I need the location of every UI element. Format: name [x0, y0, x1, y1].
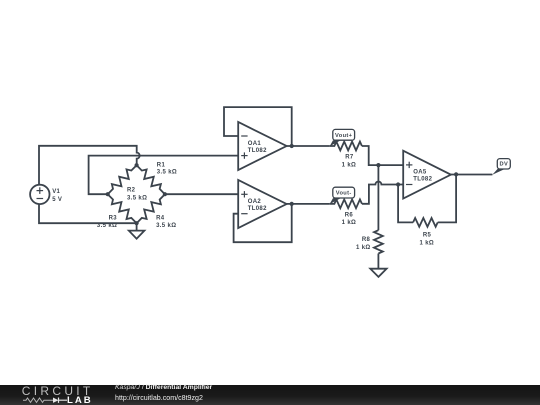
svg-text:R7: R7: [345, 155, 354, 161]
svg-text:R8: R8: [362, 237, 371, 243]
svg-text:R6: R6: [345, 212, 354, 218]
svg-text:TL082: TL082: [248, 206, 267, 212]
svg-text:3.5 kΩ: 3.5 kΩ: [156, 223, 176, 229]
svg-text:TL082: TL082: [248, 148, 267, 154]
svg-text:R5: R5: [423, 233, 432, 239]
svg-text:TL082: TL082: [413, 177, 432, 183]
svg-text:DV: DV: [499, 162, 508, 168]
svg-text:3.5 kΩ: 3.5 kΩ: [97, 223, 117, 229]
svg-text:OA2: OA2: [248, 199, 262, 205]
svg-text:3.5 kΩ: 3.5 kΩ: [127, 195, 147, 201]
svg-text:OA5: OA5: [413, 170, 427, 176]
svg-text:1 kΩ: 1 kΩ: [420, 240, 435, 246]
svg-text:V1: V1: [52, 189, 60, 195]
svg-text:1 kΩ: 1 kΩ: [356, 245, 371, 251]
svg-text:R3: R3: [109, 215, 118, 221]
svg-text:Vout-: Vout-: [336, 191, 352, 197]
svg-text:R2: R2: [127, 188, 136, 194]
svg-text:R1: R1: [157, 163, 166, 169]
svg-text:1 kΩ: 1 kΩ: [342, 162, 357, 168]
svg-text:Vout+: Vout+: [335, 133, 353, 139]
svg-text:1 kΩ: 1 kΩ: [342, 220, 357, 226]
svg-text:5 V: 5 V: [52, 197, 62, 203]
svg-text:R4: R4: [156, 216, 165, 222]
svg-text:3.5 kΩ: 3.5 kΩ: [157, 169, 177, 175]
svg-text:OA1: OA1: [248, 141, 262, 147]
